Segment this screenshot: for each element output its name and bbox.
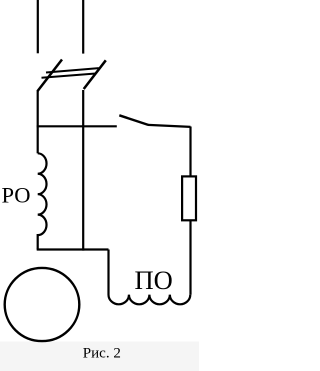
svg-text:РО: РО	[2, 183, 31, 208]
svg-text:ПО: ПО	[135, 265, 173, 295]
svg-text:Рис. 2: Рис. 2	[83, 345, 121, 361]
